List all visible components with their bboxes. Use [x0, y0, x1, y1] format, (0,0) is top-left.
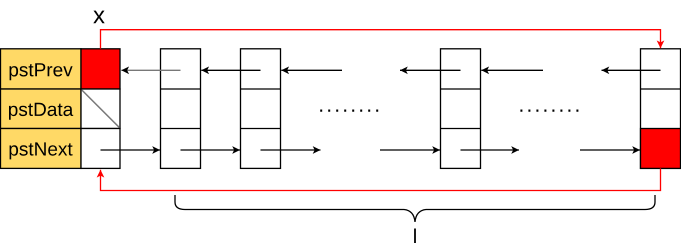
node head cell pstNext (yellow label)	[1, 129, 82, 169]
wire red x pstPrev to tail node (top)	[101, 30, 661, 49]
label l	[414, 229, 416, 244]
node tail pstNext cell (red)	[641, 129, 681, 169]
node head pstNext pointer cell	[81, 129, 120, 169]
wire next arrow head to node2	[101, 149, 161, 151]
node 4 box	[441, 49, 481, 169]
wire prev arrow node4 to ellipsis	[400, 69, 461, 71]
wire prev arrow node3 to node2	[201, 69, 260, 71]
label x	[93, 11, 104, 24]
wire next arrow node3 to ellipsis	[261, 149, 321, 151]
node head pstPrev pointer cell (red)	[81, 49, 120, 89]
node 2 box	[161, 49, 201, 169]
node head pstData NULL diagonal	[82, 90, 120, 128]
label pstPrev	[10, 63, 73, 80]
node tail box	[641, 49, 681, 169]
label pstNext	[10, 142, 73, 159]
wire next arrow node2 to node3	[181, 149, 241, 151]
ellipsis dots 1	[320, 109, 378, 111]
wire prev arrow into node3 from ellipsis	[281, 69, 342, 71]
wire next arrow into tail from ellipsis	[580, 149, 640, 151]
node 3 box	[241, 49, 281, 169]
node head cell pstData (yellow label)	[1, 89, 82, 129]
node head cell pstPrev (yellow label)	[1, 49, 82, 89]
brace l span	[175, 195, 655, 222]
node head pstData pointer cell	[81, 89, 120, 129]
wire next arrow node4 to ellipsis	[461, 149, 520, 151]
ellipsis dots 2	[520, 109, 578, 111]
wire prev arrow node2 to head (gray)	[121, 69, 180, 71]
wire red tail pstNext to head node (bottom)	[101, 168, 661, 190]
label pstData	[9, 103, 73, 120]
wire prev arrow tail to ellipsis	[602, 69, 661, 71]
wire next arrow into node4 from ellipsis	[380, 149, 440, 151]
wire prev arrow into node4 from ellipsis	[481, 69, 543, 71]
